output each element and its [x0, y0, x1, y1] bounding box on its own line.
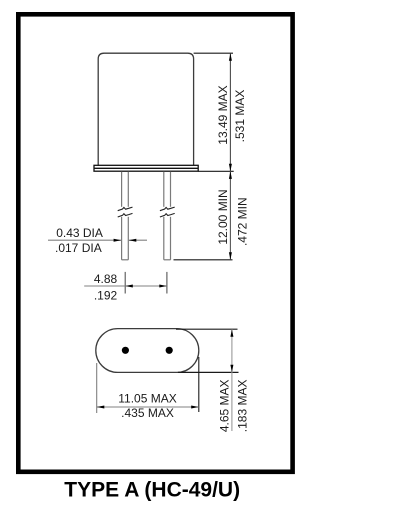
svg-text:.183 MAX: .183 MAX — [236, 380, 250, 433]
svg-text:12.00 MIN: 12.00 MIN — [216, 189, 230, 244]
svg-text:.017 DIA: .017 DIA — [55, 241, 102, 255]
crystal can body (side view) — [98, 53, 193, 165]
dimension line 4.88 — [84, 285, 167, 287]
svg-text:4.65 MAX: 4.65 MAX — [217, 379, 231, 432]
extension line: stadium left (11.05) — [96, 363, 98, 413]
dimension line 4.65 MAX — [231, 329, 233, 431]
svg-text:13.49 MAX: 13.49 MAX — [216, 85, 230, 144]
extension line: stadium right (11.05) — [198, 357, 200, 412]
leader 0.43 DIA — [48, 239, 121, 241]
svg-text:.192: .192 — [94, 289, 118, 303]
svg-text:0.43 DIA: 0.43 DIA — [56, 226, 103, 240]
svg-text:11.05 MAX: 11.05 MAX — [118, 392, 176, 406]
svg-text:.472 MIN: .472 MIN — [235, 197, 249, 246]
extension line: lead bottom — [174, 259, 233, 261]
svg-text:4.88: 4.88 — [94, 272, 118, 286]
svg-text:.435 MAX: .435 MAX — [121, 406, 174, 420]
dimension line 12.00 MIN — [229, 171, 231, 259]
extension line: stadium bottom — [178, 371, 239, 373]
extension line: can top — [194, 52, 233, 54]
base flange — [94, 165, 198, 171]
pin dot right — [166, 347, 173, 354]
svg-text:TYPE A (HC-49/U): TYPE A (HC-49/U) — [64, 478, 240, 501]
extension line: stadium top — [176, 328, 238, 330]
pin dot left — [122, 347, 129, 354]
right lead break symbol — [160, 207, 175, 217]
extension line: flange bottom — [198, 170, 234, 172]
dimension line 11.05 MAX — [97, 406, 199, 408]
bottom view stadium outline — [96, 329, 199, 373]
border frame — [18, 14, 292, 472]
left lead break symbol — [118, 207, 133, 217]
dimension line 13.49 MAX — [229, 53, 231, 171]
svg-text:.531 MAX: .531 MAX — [233, 90, 247, 143]
dimension 4.88 extension lines — [124, 272, 126, 294]
right lead — [164, 172, 171, 260]
left lead — [122, 172, 129, 260]
